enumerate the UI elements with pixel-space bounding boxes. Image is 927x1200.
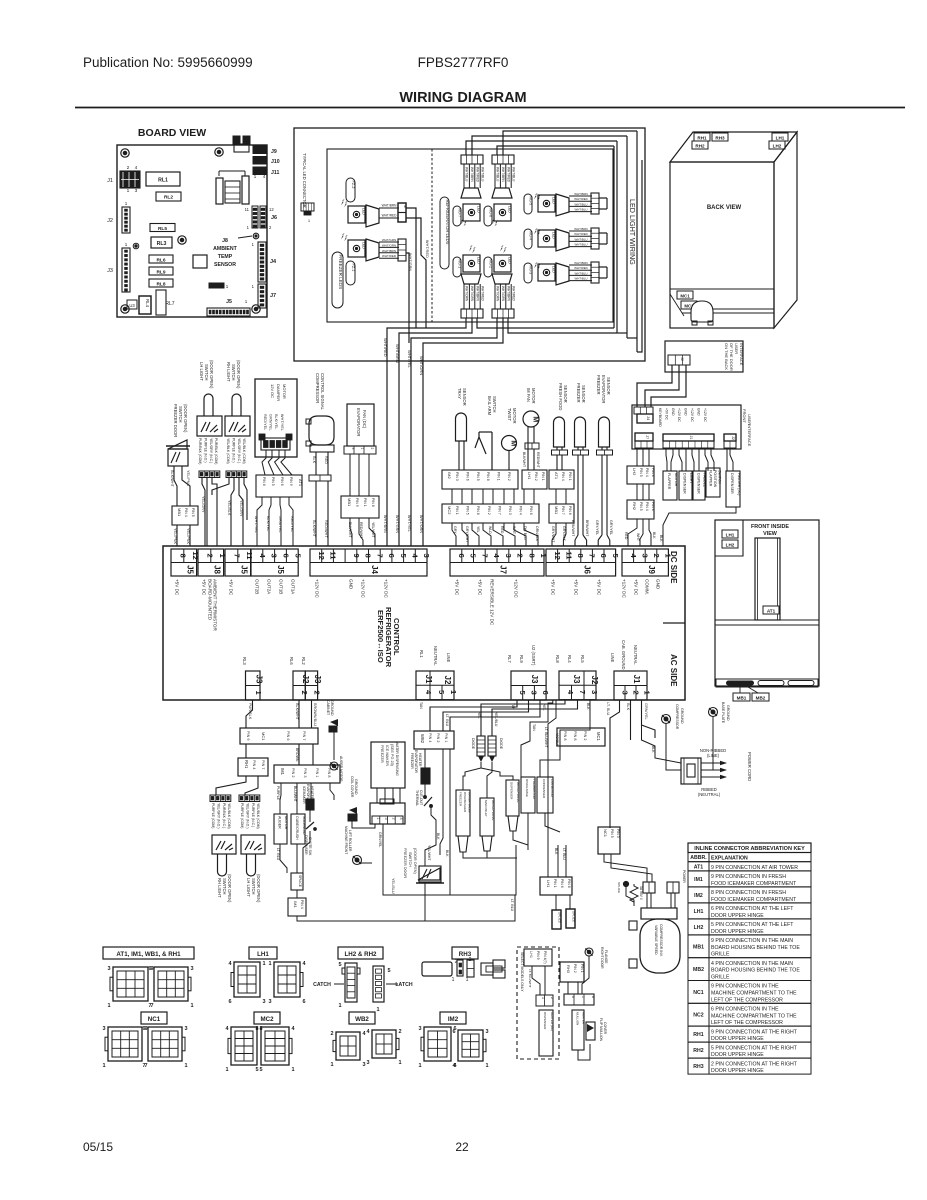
- svg-text:8: 8: [178, 554, 187, 558]
- wires MB1 ff to J6: [552, 523, 556, 546]
- svg-text:LH2: LH2: [726, 543, 735, 548]
- svg-text:POWER CORD: POWER CORD: [747, 752, 752, 781]
- svg-text:SWITCH: SWITCH: [408, 852, 412, 867]
- wires NC1 region to LH1: [557, 845, 559, 877]
- svg-text:PIN 4(?): PIN 4(?): [543, 951, 547, 964]
- svg-text:WHT/RED: WHT/RED: [512, 286, 516, 302]
- svg-text:LH1: LH1: [527, 472, 532, 480]
- splice dot: [623, 881, 628, 886]
- svg-text:LH LIGHT: LH LIGHT: [246, 878, 251, 897]
- connector IM2 pins: [442, 470, 518, 489]
- svg-text:WHT/BLU: WHT/BLU: [574, 277, 587, 281]
- svg-text:WHT/GRN: WHT/GRN: [408, 253, 412, 271]
- svg-text:PURPLE: PURPLE: [276, 786, 280, 801]
- svg-text:WHT/ORN: WHT/ORN: [419, 356, 424, 375]
- svg-text:LED: LED: [508, 206, 512, 213]
- svg-text:YEL/BLU: YEL/BLU: [494, 712, 498, 727]
- back view label RH3: [712, 133, 728, 141]
- svg-text:J2: J2: [107, 218, 113, 224]
- LED top bus wires: [466, 141, 617, 155]
- LED right module feed wires: [599, 197, 607, 199]
- svg-text:WHT/BLU: WHT/BLU: [574, 271, 587, 275]
- svg-text:(DOOR OPEN): (DOOR OPEN): [256, 874, 261, 903]
- svg-text:LINE: LINE: [610, 653, 615, 663]
- svg-text:LH2 & RH2: LH2 & RH2: [345, 951, 378, 958]
- svg-text:RL8: RL8: [156, 282, 165, 288]
- refrigerator LED right module 1 connector: [556, 194, 569, 216]
- select 1 2 cells: [536, 995, 553, 1006]
- svg-text:4 PIN CONNECTION IN THE MAIN: 4 PIN CONNECTION IN THE MAIN: [711, 961, 793, 967]
- svg-text:EXPLANATION: EXPLANATION: [711, 856, 748, 862]
- front UI connector J1: [663, 434, 714, 441]
- svg-text:1: 1: [107, 1003, 110, 1009]
- svg-text:J3: J3: [530, 675, 539, 684]
- svg-text:PIN 5: PIN 5: [610, 829, 614, 838]
- svg-text:WHT/YEL: WHT/YEL: [407, 515, 411, 532]
- svg-text:J8: J8: [222, 238, 228, 244]
- svg-text:RH3: RH3: [715, 136, 725, 141]
- svg-text:FREEZER DOOR: FREEZER DOOR: [173, 404, 178, 437]
- svg-text:LH2: LH2: [694, 925, 704, 931]
- connector AT1 pins fresh food: [549, 470, 574, 489]
- svg-text:BACK VIEW: BACK VIEW: [707, 205, 742, 211]
- air tower: [755, 538, 780, 620]
- svg-text:WB2: WB2: [420, 734, 425, 744]
- refrigerator LED top module 2 wires: [494, 164, 496, 188]
- svg-text:WHT/BRN: WHT/BRN: [382, 249, 396, 253]
- icemaker evaporator heater: [306, 799, 314, 810]
- svg-text:YEL/WHT: YEL/WHT: [371, 522, 375, 538]
- svg-text:AT1: AT1: [767, 609, 776, 614]
- svg-text:1: 1: [360, 448, 364, 450]
- svg-text:OUT1A: OUT1A: [291, 579, 296, 595]
- svg-text:+12V DC: +12V DC: [361, 579, 366, 598]
- connector J7 board: [258, 284, 266, 308]
- svg-text:RED: RED: [624, 532, 628, 540]
- svg-text:LT. BLU: LT. BLU: [606, 702, 610, 715]
- svg-text:LT. BLU: LT. BLU: [562, 848, 566, 860]
- svg-text:1: 1: [466, 977, 469, 983]
- svg-text:KEYBOARD: KEYBOARD: [658, 408, 662, 427]
- svg-text:PIN 5: PIN 5: [476, 472, 480, 481]
- main inlet water valve box: [480, 798, 494, 836]
- refrigerator LED top module 1 wires: [463, 164, 465, 188]
- svg-text:NC2: NC2: [693, 1013, 703, 1019]
- svg-text:SWITCH: SWITCH: [204, 364, 209, 381]
- wires MB1 to J5: [176, 525, 178, 546]
- svg-text:FREEZER: FREEZER: [410, 753, 414, 769]
- table row RH2: [688, 1042, 811, 1058]
- svg-text:SOLENOID: SOLENOID: [302, 816, 306, 835]
- svg-text:SWITCH: SWITCH: [251, 878, 256, 895]
- svg-text:12: 12: [269, 207, 274, 212]
- svg-text:IM FAN: IM FAN: [526, 388, 531, 402]
- connector drawing MC2 rear: [261, 1027, 289, 1065]
- svg-text:IM2: IM2: [447, 472, 452, 479]
- svg-text:6 PIN CONNECTION AT THE LEFT: 6 PIN CONNECTION AT THE LEFT: [711, 906, 794, 912]
- svg-text:RL6: RL6: [156, 258, 165, 264]
- svg-text:REFRIGERATOR LEDS: REFRIGERATOR LEDS: [445, 200, 450, 245]
- svg-text:BAIL ARM: BAIL ARM: [487, 396, 492, 416]
- wire WB2 left down: [414, 724, 421, 740]
- svg-text:WHT/BRN: WHT/BRN: [395, 344, 400, 363]
- svg-text:GROUND: GROUND: [354, 779, 358, 795]
- svg-text:YEL: YEL: [476, 526, 480, 533]
- svg-text:YEL/GRY (N.C.): YEL/GRY (N.C.): [237, 438, 241, 463]
- svg-text:INTERFACE: INTERFACE: [747, 424, 752, 447]
- svg-text:YEL: YEL: [477, 712, 481, 719]
- svg-text:4: 4: [135, 165, 138, 171]
- wires LH1 to splices: [555, 895, 557, 910]
- dispenser water valve box: [506, 780, 519, 816]
- svg-text:ICE MAKER: ICE MAKER: [385, 745, 389, 766]
- svg-text:05/15: 05/15: [83, 1140, 113, 1154]
- svg-text:MOTOR: MOTOR: [282, 384, 287, 399]
- svg-text:J11: J11: [271, 170, 279, 176]
- LH switch pin row: [199, 471, 220, 478]
- svg-text:BLK: BLK: [554, 848, 558, 855]
- svg-text:PIN 2: PIN 2: [291, 768, 295, 778]
- svg-text:BASE PLATE: BASE PLATE: [721, 702, 725, 724]
- svg-text:MB2: MB2: [693, 967, 704, 973]
- LH light switch lower: [241, 835, 265, 854]
- svg-text:GND: GND: [671, 408, 675, 416]
- svg-text:SPLICE: SPLICE: [558, 912, 562, 923]
- svg-text:WB2: WB2: [355, 1016, 369, 1023]
- connector MB1 pins freezer door: [172, 506, 198, 525]
- svg-text:SENSOR: SENSOR: [563, 385, 568, 403]
- svg-text:+12V DC: +12V DC: [703, 408, 707, 422]
- front inside view inner corner box: [715, 520, 743, 556]
- toe grille label MB2: [752, 693, 769, 701]
- svg-text:(NEUTRAL): (NEUTRAL): [698, 792, 721, 797]
- svg-text:2: 2: [370, 448, 374, 450]
- relay RL3: [151, 237, 172, 248]
- svg-text:GRN/YEL: GRN/YEL: [269, 414, 273, 431]
- back view label LH2: [769, 141, 785, 149]
- refrigerator LED right module 1 wires: [569, 195, 592, 197]
- svg-text:+5V DC: +5V DC: [551, 579, 556, 596]
- wires MB1 evap to J4: [350, 518, 352, 546]
- svg-text:(DOOR OPEN): (DOOR OPEN): [413, 848, 417, 874]
- connector J1b bottom: [614, 671, 647, 700]
- svg-text:LEFT OF THE COMPRESSOR: LEFT OF THE COMPRESSOR: [711, 1020, 783, 1026]
- svg-text:1: 1: [291, 1067, 294, 1073]
- refrigerator LED bottom module 1: [469, 245, 476, 253]
- connector drawing NC1 front: [108, 1027, 142, 1061]
- svg-text:MC2: MC2: [260, 1016, 274, 1023]
- connector IM1 pin 4: [288, 898, 306, 916]
- freezer FZ-1 plug: [398, 239, 406, 261]
- svg-text:CABINET: CABINET: [326, 700, 330, 716]
- svg-text:FREEZER LEDS: FREEZER LEDS: [338, 255, 343, 290]
- svg-text:RED/YEL: RED/YEL: [290, 516, 294, 532]
- connector drawing LH2 catch: [345, 963, 357, 1002]
- relay RL2: [156, 192, 181, 201]
- svg-text:HEATER: HEATER: [581, 1012, 585, 1025]
- svg-text:PIN 7: PIN 7: [497, 506, 501, 515]
- svg-text:INTERFACE: INTERFACE: [739, 343, 744, 366]
- svg-text:PURPLE (N.O.): PURPLE (N.O.): [231, 438, 235, 463]
- connector drawing RH2 latch: [373, 966, 384, 1002]
- svg-text:PIN 1: PIN 1: [580, 964, 584, 973]
- svg-text:BROWN: BROWN: [295, 748, 299, 762]
- svg-text:PIN 2: PIN 2: [583, 731, 587, 741]
- svg-text:RG-1: RG-1: [457, 260, 461, 269]
- svg-text:AT1, IM1, WB1, & RH1: AT1, IM1, WB1, & RH1: [116, 951, 181, 958]
- svg-text:3: 3: [102, 1026, 105, 1032]
- connector NC1 pins right: [598, 827, 620, 854]
- svg-text:BOARD-MOUNTED: BOARD-MOUNTED: [208, 579, 213, 621]
- svg-text:WHT/BLU: WHT/BLU: [512, 167, 516, 182]
- connector RH1 pins: [238, 758, 268, 776]
- front inside view toe grille: [716, 679, 818, 687]
- connector drawing NC1 rear: [148, 1027, 182, 1061]
- svg-text:4: 4: [399, 818, 403, 820]
- wires front UI J1 to dispenser components: [666, 448, 667, 471]
- connector J9 top: [622, 549, 668, 576]
- svg-text:PIN 5: PIN 5: [191, 508, 195, 517]
- freezer LED FZ-2 module: [341, 199, 348, 207]
- svg-text:DOOR UPPER HINGE: DOOR UPPER HINGE: [711, 1068, 764, 1074]
- connector LH2 pins: [627, 466, 654, 484]
- svg-text:RED: RED: [324, 456, 328, 464]
- svg-text:RH1: RH1: [697, 136, 707, 141]
- wire inverter down: [658, 973, 660, 980]
- svg-text:WHT/BLU: WHT/BLU: [574, 208, 587, 212]
- svg-text:TWIST: TWIST: [507, 408, 512, 421]
- wire NC1 to inverter: [604, 854, 647, 882]
- svg-text:CONDENSER: CONDENSER: [542, 779, 546, 799]
- svg-text:POSITION: POSITION: [713, 470, 717, 488]
- wires AT1 ff to MB1: [555, 489, 557, 504]
- svg-text:LT. BLU: LT. BLU: [276, 848, 280, 861]
- svg-text:COMPRESSOR: COMPRESSOR: [675, 704, 679, 730]
- svg-text:+5V DC: +5V DC: [202, 579, 207, 596]
- svg-text:NC1: NC1: [148, 1016, 161, 1023]
- connector J3c bottom: [511, 671, 546, 700]
- connector J6 top: [546, 549, 616, 576]
- svg-text:RL5: RL5: [158, 226, 167, 232]
- svg-text:PIN 3: PIN 3: [303, 768, 307, 778]
- svg-text:WATER VALVE: WATER VALVE: [516, 782, 520, 803]
- svg-text:+12V DC: +12V DC: [690, 408, 694, 422]
- refrigerator LED right module 3 plug: [591, 262, 599, 283]
- svg-text:SWITCH: SWITCH: [492, 396, 497, 413]
- back view top face: [670, 132, 797, 162]
- svg-text:COVER: COVER: [603, 1022, 607, 1035]
- svg-text:PIN 9: PIN 9: [289, 477, 293, 486]
- connector J2a bottom: [293, 671, 305, 700]
- svg-text:WHT/YEL: WHT/YEL: [280, 414, 284, 431]
- svg-text:NC1: NC1: [693, 990, 703, 996]
- svg-text:HEATER: HEATER: [310, 786, 314, 800]
- svg-text:PIN 2: PIN 2: [573, 964, 577, 973]
- svg-text:+12V DC: +12V DC: [384, 579, 389, 598]
- svg-text:J5: J5: [185, 565, 194, 574]
- table row LH1: [688, 903, 811, 919]
- svg-text:6: 6: [541, 691, 550, 695]
- IC chip: [193, 255, 207, 268]
- connector J4 board: [258, 242, 266, 282]
- svg-text:AT1: AT1: [694, 864, 704, 870]
- svg-text:RL2: RL2: [164, 195, 173, 201]
- svg-text:DIODE: DIODE: [471, 738, 475, 750]
- svg-text:J1: J1: [107, 178, 113, 184]
- svg-text:5: 5: [255, 1067, 258, 1073]
- svg-text:PIN 1: PIN 1: [363, 498, 367, 507]
- connector J11 board: [253, 167, 267, 175]
- svg-text:J3: J3: [107, 268, 113, 274]
- board DC/AC divider notch: [663, 622, 685, 624]
- svg-text:U3: U3: [129, 303, 135, 308]
- svg-text:1: 1: [418, 1063, 421, 1069]
- svg-text:RED/WHT: RED/WHT: [536, 452, 540, 468]
- svg-text:2: 2: [550, 997, 554, 999]
- connector drawing IM2 rear: [458, 1030, 483, 1061]
- svg-text:3A 94V 0: 3A 94V 0: [639, 886, 643, 900]
- svg-text:PIN 8: PIN 8: [567, 879, 571, 888]
- table row IM1: [688, 871, 811, 887]
- select models only box: [517, 947, 559, 1059]
- wires LH1 from board: [548, 700, 556, 877]
- svg-text:REFRIGERATOR: REFRIGERATOR: [384, 607, 393, 668]
- svg-text:J3: J3: [572, 675, 581, 684]
- svg-text:TAN: TAN: [532, 724, 536, 731]
- refrigerator LED top module 1: [463, 204, 480, 221]
- svg-text:VARIABLE SPEED: VARIABLE SPEED: [654, 925, 658, 955]
- svg-text:+12V DC: +12V DC: [315, 579, 320, 598]
- connector J2: [122, 207, 130, 233]
- svg-text:RL9: RL9: [519, 655, 524, 663]
- svg-text:RH3: RH3: [693, 1064, 703, 1070]
- svg-text:MC1: MC1: [261, 732, 266, 741]
- svg-text:IM2: IM2: [694, 893, 703, 899]
- svg-text:PIN 8: PIN 8: [327, 768, 331, 778]
- freezer door switch lower: [418, 868, 440, 880]
- svg-text:J2: J2: [731, 436, 735, 440]
- svg-text:IM1: IM1: [293, 901, 298, 908]
- svg-text:PIN 5: PIN 5: [271, 477, 275, 486]
- svg-text:PIN 8: PIN 8: [476, 506, 480, 515]
- wires J3d to diodes: [481, 700, 565, 736]
- svg-text:YEL/BLK (COM): YEL/BLK (COM): [256, 803, 260, 829]
- svg-text:BLK: BLK: [652, 532, 656, 539]
- svg-text:12: 12: [191, 551, 200, 559]
- svg-text:9 PIN CONNECTION AT AIR TOWER: 9 PIN CONNECTION AT AIR TOWER: [711, 865, 798, 871]
- svg-text:PIN 7: PIN 7: [561, 506, 565, 515]
- svg-text:5: 5: [338, 962, 341, 968]
- svg-text:RL1: RL1: [158, 178, 168, 184]
- svg-text:MC1: MC1: [680, 294, 690, 299]
- svg-text:MC2: MC2: [447, 506, 452, 515]
- svg-text:FZ-1: FZ-1: [351, 264, 355, 272]
- svg-text:1: 1: [190, 1003, 193, 1009]
- relay RL6: [149, 255, 173, 263]
- LED bottom bus wires: [387, 318, 466, 546]
- board screw hole center: [178, 236, 186, 244]
- front inside view label LH1: [722, 530, 738, 538]
- svg-text:PIN 9: PIN 9: [536, 951, 540, 960]
- svg-text:OF THE DOOR: OF THE DOOR: [729, 343, 734, 371]
- svg-text:J8: J8: [212, 565, 221, 574]
- front inside view divider: [715, 619, 819, 621]
- svg-text:WHT/BRN: WHT/BRN: [470, 167, 474, 183]
- svg-text:J6: J6: [582, 565, 591, 574]
- svg-text:1: 1: [541, 997, 545, 999]
- svg-text:+12V DC: +12V DC: [677, 408, 681, 422]
- wires RH3 down: [567, 982, 569, 994]
- svg-text:WHT/ORN: WHT/ORN: [465, 286, 469, 302]
- connector J5b top: [225, 549, 251, 576]
- svg-text:LED: LED: [362, 242, 366, 249]
- svg-text:PIN 1: PIN 1: [541, 472, 545, 481]
- svg-text:LEFT OF THE COMPRESSOR: LEFT OF THE COMPRESSOR: [711, 997, 783, 1003]
- refrigerator LED top module 2 connector: [492, 188, 512, 198]
- svg-text:3: 3: [351, 448, 355, 450]
- svg-text:3: 3: [135, 188, 138, 194]
- power cord prongs: [701, 762, 726, 764]
- diode pack 2: [488, 736, 496, 756]
- connector MC2 pins: [442, 504, 539, 523]
- svg-text:7: 7: [232, 554, 241, 558]
- svg-text:BLK: BLK: [445, 850, 449, 857]
- wire IM1 pin4 to freezer loop: [297, 895, 515, 921]
- svg-text:GND: GND: [349, 579, 354, 590]
- svg-text:IM2: IM2: [448, 1016, 459, 1023]
- svg-text:NEUTRAL: NEUTRAL: [633, 645, 638, 665]
- svg-text:BLK/YEL: BLK/YEL: [266, 516, 270, 531]
- svg-text:WIRING DIAGRAM: WIRING DIAGRAM: [399, 90, 526, 106]
- svg-text:RL1: RL1: [419, 650, 424, 658]
- table row LH2: [688, 919, 811, 935]
- refrigerator LED right module 3 connector: [556, 263, 569, 285]
- svg-text:PIN 8: PIN 8: [563, 731, 567, 741]
- svg-text:YEL/BLU: YEL/BLU: [391, 878, 395, 894]
- svg-text:BLK/WHT: BLK/WHT: [295, 703, 299, 721]
- connector AT1 pins damper: [256, 475, 302, 497]
- svg-text:GRY/WHT: GRY/WHT: [551, 526, 555, 543]
- svg-text:PIN 7: PIN 7: [302, 731, 306, 741]
- compressor inverter mounts: [629, 921, 637, 930]
- evaporator fan wires: [349, 454, 351, 496]
- compressor signal wires to J4: [315, 481, 317, 546]
- board mounting hole bottom-right: [252, 305, 260, 313]
- svg-text:YEL/BLK (COM): YEL/BLK (COM): [227, 803, 231, 829]
- svg-text:LH1: LH1: [546, 880, 551, 888]
- svg-text:RL7: RL7: [165, 301, 174, 307]
- svg-text:RL4: RL4: [567, 655, 572, 663]
- connector drawing label MC2: [254, 1012, 280, 1024]
- svg-text:WHT/RED: WHT/RED: [481, 286, 485, 302]
- svg-text:RL9: RL9: [156, 270, 165, 276]
- LED right bus wires: [616, 141, 618, 333]
- connector drawing label NC1: [141, 1012, 167, 1024]
- LED inner box: [327, 149, 613, 322]
- wires to dispenser heater hc: [540, 1006, 542, 1010]
- svg-text:AUGER: AUGER: [278, 816, 282, 829]
- connector drawing MC2 front: [231, 1027, 257, 1065]
- svg-text:YEL/GRY: YEL/GRY: [201, 496, 205, 513]
- user interface connector: [668, 355, 690, 365]
- wires RH2 to board J9: [628, 519, 637, 546]
- svg-text:RH2: RH2: [693, 1048, 703, 1054]
- wires ice maker down: [376, 788, 378, 803]
- svg-text:LH1: LH1: [257, 951, 269, 958]
- svg-text:FREEZER: FREEZER: [596, 375, 601, 395]
- svg-text:FREEZER: FREEZER: [458, 792, 462, 807]
- svg-text:WATER DISPENSING: WATER DISPENSING: [395, 742, 399, 776]
